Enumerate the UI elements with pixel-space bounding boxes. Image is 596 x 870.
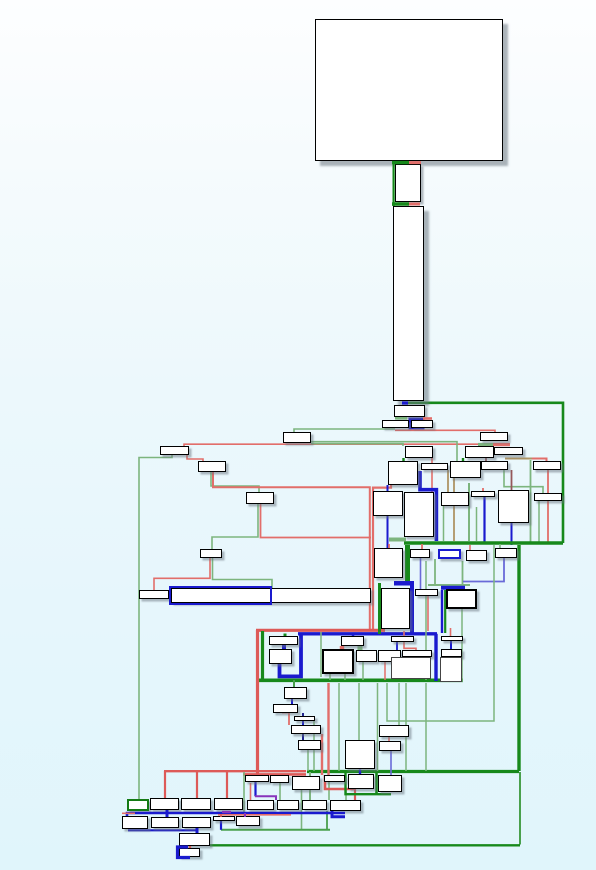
wire red-x322: [321, 734, 323, 775]
wire n24-g2: [468, 483, 470, 541]
wire stub-n4-n5-r: [423, 417, 432, 420]
wire n25-blue: [483, 497, 485, 543]
wire green-stub-n32: [499, 544, 501, 548]
wire olive-n15-n21: [505, 458, 533, 460]
node n20: [481, 461, 508, 470]
node n23: [404, 492, 434, 537]
wire green-x359: [358, 683, 360, 740]
wire bus-blue-633: [298, 632, 437, 635]
wire n16-n23-red: [431, 458, 433, 492]
wire bus-red-630: [256, 629, 385, 632]
wire green-stub-n36: [284, 634, 287, 638]
wire green-x530: [530, 460, 532, 543]
wire green-h585: [428, 584, 470, 586]
node n5a: [382, 420, 409, 428]
wire drop-r1d: [226, 771, 228, 798]
wire drop-r1h-red: [354, 789, 356, 800]
node n55: [348, 774, 374, 789]
node n40: [356, 650, 377, 662]
wire n14-n19: [462, 458, 464, 461]
node n36: [269, 636, 298, 645]
wire green-vert-262: [261, 631, 264, 680]
node n27: [534, 493, 562, 501]
wire red-stub-n31: [469, 545, 471, 550]
wire red-n52-n53: [388, 737, 390, 741]
node n33: [381, 588, 410, 629]
wire red-stub-n28: [388, 544, 390, 548]
wire drop-r1c: [196, 771, 198, 798]
wire n24-g1: [443, 506, 445, 541]
wire n6-n19-green: [311, 442, 457, 461]
node n10: [200, 549, 222, 558]
wire stub-n4-n5-g: [395, 417, 407, 420]
node r2e: [236, 816, 260, 826]
wire blue-n28-n33: [394, 581, 414, 586]
wire red-n42-n43: [404, 642, 416, 650]
node r1h: [330, 800, 361, 811]
wire green-edge-n2: [393, 161, 395, 206]
wire bus-green-680: [258, 678, 463, 682]
wire n6-n16-green: [311, 444, 403, 446]
wire red-x428: [427, 596, 429, 631]
wire n32-blue: [463, 558, 504, 582]
wire red-stub-n25: [482, 488, 484, 492]
wire purple-to-r1f: [255, 796, 276, 800]
wire red-bus-774: [243, 773, 306, 776]
node r1f: [277, 800, 299, 810]
wire blue-stub-n39: [352, 634, 355, 637]
node n11: [139, 590, 169, 599]
wire blue-y813: [127, 813, 345, 816]
wire conn-blue-r2c-n57: [196, 828, 199, 833]
wire red-y771-left: [164, 770, 306, 772]
wire n40-d: [362, 662, 364, 680]
node n53: [379, 741, 401, 751]
node n13: [480, 432, 508, 441]
node n26: [498, 490, 529, 523]
wire n13-n14: [478, 443, 493, 446]
node n54d: [324, 775, 345, 782]
node n30: [438, 549, 461, 559]
wire green-n31a: [462, 561, 464, 584]
wire n39-n38-red: [340, 646, 345, 650]
wire green-n54c-down: [301, 790, 303, 830]
wire stub-main-n2-r: [409, 161, 421, 164]
node n9: [246, 492, 274, 504]
node n14: [465, 446, 494, 458]
wire bus-green-771: [307, 770, 519, 773]
wire conn-blue-r1b-r2b: [166, 810, 169, 817]
wire green-x462: [461, 609, 463, 682]
node r1b: [150, 798, 179, 810]
wire drop-r1e-r: [250, 783, 252, 800]
wire red-elbow-n55: [325, 775, 355, 789]
node n15: [494, 447, 523, 455]
node n31: [466, 550, 487, 561]
node n28: [374, 548, 403, 578]
node n6: [283, 432, 311, 443]
wire drop-r1h-g1: [328, 782, 330, 800]
node n35: [446, 589, 477, 609]
wire n45-blue-down: [450, 657, 452, 681]
wire n26-blue: [511, 523, 513, 545]
wire n9-right-red: [261, 504, 372, 538]
wire n24-olive: [453, 506, 455, 541]
wire red-n52: [398, 683, 400, 725]
wire blue-n48-n49: [302, 721, 304, 725]
wire bus-green-543: [404, 541, 563, 545]
wire n19-n24-olive: [453, 478, 455, 492]
wire lb-x414: [414, 657, 416, 679]
wire conn-red-n57-n58: [189, 846, 191, 848]
node n25: [471, 491, 495, 497]
wire blue-r2d-riser: [220, 821, 222, 830]
node n5b: [411, 420, 433, 428]
node n50: [298, 740, 321, 750]
wire pale-seg-n28: [389, 538, 406, 542]
wire drop-r1b: [164, 771, 166, 798]
wire purple-stub-r2e: [244, 813, 246, 817]
wire drop-r1f-g: [279, 783, 281, 800]
node n49: [291, 725, 321, 734]
wire green-mid-n55n56: [375, 771, 378, 794]
wire green-x426b: [425, 561, 427, 680]
wire n5-n13-red: [395, 430, 495, 432]
wire n10-n11-red: [154, 558, 210, 590]
node n54c: [292, 776, 320, 790]
wire blue-n36-n37: [282, 645, 286, 649]
wire n21-n27-red: [547, 470, 549, 493]
wire n14-n20: [485, 458, 487, 461]
node n37: [269, 649, 292, 664]
wire bus-green-845: [210, 844, 520, 846]
wire green-n46: [293, 680, 295, 687]
wire n42-n43: [396, 642, 398, 650]
node main: [315, 19, 503, 161]
node r1g: [302, 800, 327, 810]
wire red-stub-n29: [421, 544, 423, 549]
wire green-x339: [338, 683, 340, 771]
wire n8-right-red: [213, 472, 370, 631]
wire n13-n15: [493, 443, 510, 446]
wire blue-n17-down: [387, 485, 389, 549]
wire red-y444: [184, 444, 484, 447]
node r1d: [214, 798, 243, 810]
wire stub-n2-n3-g: [392, 202, 409, 205]
wire vert-green-519: [517, 545, 520, 771]
node n38: [322, 649, 354, 674]
node n19: [450, 461, 481, 478]
wire drop-r1h-g2: [345, 789, 347, 800]
node n48: [294, 716, 315, 721]
wire blue-n51-n55: [359, 770, 361, 776]
node n2: [395, 164, 421, 202]
wire navy-n47-n48: [302, 713, 304, 716]
wire navy-n49-n50: [302, 734, 304, 740]
wire purple-seg: [222, 811, 231, 813]
node n21: [533, 461, 561, 470]
node n56: [378, 775, 402, 792]
wire conn-n4-n5: [409, 418, 425, 430]
node n57: [179, 833, 210, 846]
node n22: [373, 491, 403, 516]
wire left-green-long: [139, 455, 172, 799]
node n52: [379, 725, 409, 737]
node n34: [415, 589, 438, 596]
wire n20-n26-g: [504, 470, 543, 493]
wire vert-green-520b: [519, 772, 521, 845]
wire red-x328: [327, 683, 329, 775]
wire green-x377: [377, 683, 379, 771]
node n12: [171, 588, 371, 603]
wire blue-n23-right: [420, 471, 436, 541]
node n44: [441, 636, 463, 641]
wire n27-green: [538, 501, 540, 543]
wire red-seg-left: [122, 812, 135, 814]
wire n44-n45-blue: [450, 641, 452, 649]
wire n18-n24-olive: [447, 470, 449, 492]
wire n8-n9-green: [211, 472, 259, 492]
wire drop-r2e-g: [243, 772, 245, 816]
wire green-U-n55: [346, 771, 392, 794]
wire red-n47-n49: [282, 713, 289, 726]
wire n9-n10-green: [212, 504, 258, 549]
wire blue-n33-right: [410, 583, 414, 633]
wire green-y830: [221, 829, 330, 831]
wire blue-n35-left: [441, 590, 443, 633]
wire n39-n40-green: [358, 646, 363, 650]
wire n16-n17: [402, 458, 404, 461]
wire green-n30a: [434, 559, 436, 584]
node r2b: [151, 817, 179, 828]
node n45b: [440, 657, 462, 682]
node r1a: [127, 799, 149, 811]
wire n38-d1: [329, 674, 331, 680]
node r2a: [122, 816, 148, 829]
wire green-x308: [307, 750, 309, 771]
node n32: [495, 548, 517, 558]
wire stub-n2-n3-r: [409, 203, 420, 206]
node n54a: [245, 775, 269, 782]
wire green-n35-left: [444, 590, 446, 633]
node n24: [441, 492, 469, 506]
node n43: [402, 650, 432, 657]
node n41: [378, 650, 401, 662]
node r1e: [247, 800, 274, 810]
wire conn-blue-r1h: [332, 811, 345, 817]
wire n7-n8: [187, 455, 203, 461]
node n42: [391, 636, 414, 642]
wire drop-r1g-g: [309, 772, 311, 800]
wire blue-bar-n35: [441, 586, 465, 590]
node n4: [394, 405, 425, 417]
wire ltgreen-x321: [320, 632, 322, 677]
wire blue-vert-436: [434, 634, 437, 681]
node n29: [410, 549, 430, 558]
node n16: [405, 446, 433, 458]
node n12 highlight border: [169, 586, 272, 605]
wire n20-n26-r: [511, 470, 513, 490]
node n58: [179, 848, 200, 857]
wire green-n51-top: [358, 739, 360, 742]
wire blue-n37-down: [280, 634, 302, 676]
wire green-n28-down: [405, 545, 410, 582]
wire stub-n3-n4-b: [402, 401, 408, 404]
wire red-n44: [450, 628, 452, 636]
wire red-n42: [403, 631, 405, 636]
node n43b: [391, 657, 431, 679]
node n39: [341, 636, 364, 646]
wire n17-left-red: [373, 485, 391, 631]
node n8: [198, 461, 226, 472]
wire n38-d2: [344, 674, 346, 680]
wire green-x426: [425, 683, 427, 771]
wire trunk-green-right: [406, 403, 563, 543]
wire red-y815: [218, 814, 291, 816]
wire blue-n53-down: [390, 751, 392, 775]
wire green-x494: [387, 545, 494, 721]
node n45: [441, 649, 462, 657]
wire blue-n46-n47: [291, 699, 293, 704]
node n51: [345, 740, 375, 769]
wire n6-up-green: [294, 429, 395, 432]
wire red-n15-n21: [532, 459, 547, 462]
wire n27-bus-red: [547, 501, 549, 543]
wire blue-n54a-down: [254, 778, 256, 796]
node n47: [273, 704, 298, 713]
wire n41-d: [384, 662, 386, 680]
node r2c: [182, 817, 211, 828]
wire red-vert-257: [256, 630, 259, 774]
node r1c: [181, 798, 211, 810]
wire green-n33-left: [378, 583, 381, 634]
wire n25-green: [476, 507, 478, 541]
node n3: [393, 206, 424, 401]
node n17: [388, 461, 418, 485]
wire green-x327-riser: [326, 811, 328, 830]
wire green-x314: [313, 721, 315, 771]
node r2d: [213, 816, 235, 821]
wire n29-n34: [420, 558, 422, 589]
node n7: [160, 446, 189, 455]
wire green-x406: [405, 683, 407, 771]
wire stub-main-n2-g: [392, 161, 409, 164]
wire n10-n12-green: [213, 558, 273, 588]
wire red-stub-r2d: [220, 814, 222, 817]
wire blue-y830-left: [128, 829, 197, 831]
node n18: [421, 463, 448, 470]
node n54b: [270, 775, 289, 783]
node n46: [284, 687, 307, 699]
